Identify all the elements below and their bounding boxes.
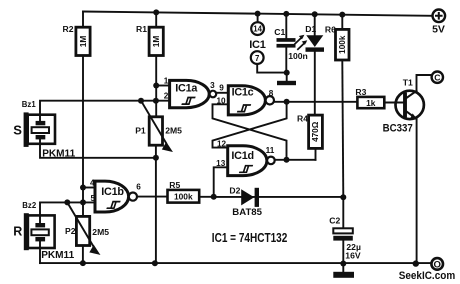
node top rail junction IC1 pin14: [255, 11, 261, 17]
wire R2 bottom to IC1b inputs: [82, 56, 84, 203]
svg-text:7: 7: [255, 54, 259, 63]
svg-text:8: 8: [269, 89, 274, 98]
wire latch cross pin12 to IC1c output: [213, 102, 287, 148]
resistor R6: [325, 24, 349, 60]
svg-text:R2: R2: [63, 24, 74, 34]
node junction R5 / pin13 / D2: [211, 194, 217, 200]
wire R6 top stub: [341, 15, 343, 30]
terminal C: [432, 72, 443, 83]
wire IC1d output line to R4 bottom: [275, 159, 316, 161]
svg-text:1M: 1M: [151, 36, 161, 48]
node top rail junction R6: [339, 12, 345, 18]
svg-text:IC1b: IC1b: [101, 186, 124, 198]
potentiometer P2: [65, 202, 109, 253]
svg-text:2M5: 2M5: [165, 125, 182, 135]
svg-text:1k: 1k: [366, 98, 376, 108]
svg-text:Bz2: Bz2: [22, 201, 37, 210]
svg-text:9: 9: [219, 84, 224, 93]
node bottom rail junction C2: [340, 261, 346, 267]
wire IC1c output to R3: [274, 101, 357, 103]
svg-text:5V: 5V: [432, 24, 445, 36]
svg-text:2: 2: [164, 92, 169, 101]
IC1 power pins: [249, 22, 265, 64]
wire top supply rail: [83, 12, 432, 16]
ground upper bar: [277, 81, 296, 85]
svg-text:4: 4: [90, 178, 95, 187]
wire pin13 riser: [214, 167, 228, 197]
capacitor C1: [274, 14, 307, 73]
svg-text:D2: D2: [229, 186, 240, 196]
svg-text:C1: C1: [274, 27, 285, 37]
node junction R2 / pin5: [80, 199, 86, 205]
svg-text:P2: P2: [65, 226, 76, 236]
wire R4 bottom stub: [315, 148, 317, 159]
svg-text:IC1a: IC1a: [175, 83, 198, 95]
svg-text:SeekIC.com: SeekIC.com: [399, 270, 456, 282]
node bottom rail junction P2: [80, 260, 86, 266]
terminal +5V: [432, 10, 445, 36]
svg-text:R: R: [13, 225, 22, 239]
wire R1 bottom to P1 top: [155, 56, 157, 117]
buzzer Bz2: [13, 201, 74, 261]
svg-text:13: 13: [216, 159, 226, 168]
resistor R5: [168, 180, 200, 203]
gate IC1b: [90, 178, 141, 212]
svg-text:6: 6: [136, 183, 141, 192]
node junction P1 wiper: [138, 98, 144, 104]
svg-text:470Ω: 470Ω: [311, 121, 320, 142]
svg-text:100n: 100n: [288, 51, 308, 61]
svg-text:BAT85: BAT85: [232, 207, 262, 218]
node junction pin1/R1: [153, 83, 159, 89]
svg-text:R5: R5: [169, 180, 180, 190]
svg-text:16V: 16V: [345, 251, 361, 261]
svg-text:P1: P1: [135, 125, 146, 135]
svg-text:IC1 = 74HCT132: IC1 = 74HCT132: [212, 230, 287, 245]
node junction P1 top / R1: [153, 98, 159, 104]
wire R3 right lead: [384, 102, 403, 104]
resistor R4: [297, 113, 322, 148]
wire R6 bottom to D2 node: [342, 60, 343, 197]
node junction C1 / pin7 ground: [284, 70, 290, 76]
wire R5 right lead: [199, 196, 214, 198]
gate IC1d: [216, 140, 275, 176]
svg-text:IC1c: IC1c: [232, 86, 254, 98]
svg-text:R4: R4: [297, 113, 308, 123]
gate IC1a: [164, 76, 216, 107]
node junction IC1d out: [284, 157, 290, 163]
svg-text:C2: C2: [329, 215, 340, 225]
svg-text:C: C: [434, 73, 440, 83]
resistor R3: [355, 87, 384, 108]
svg-text:PKM11: PKM11: [42, 148, 75, 159]
svg-text:R1: R1: [136, 24, 147, 34]
terminal O: [431, 258, 443, 270]
svg-text:11: 11: [266, 146, 275, 155]
node junction D2 / R6 / C2: [340, 194, 346, 200]
svg-text:3: 3: [210, 81, 215, 90]
buzzer Bz1: [13, 100, 75, 159]
svg-text:S: S: [13, 122, 22, 137]
wire T1 collector to C terminal: [417, 75, 433, 91]
svg-text:14: 14: [253, 25, 262, 34]
wire Bz1 top / IC1a pin2 line: [40, 101, 170, 115]
potentiometer P1: [135, 101, 182, 151]
wire T1 emitter down: [416, 119, 418, 264]
wire pin14 stub: [257, 14, 259, 23]
wire Bz2 top / IC1b pin5 line: [40, 202, 95, 215]
svg-text:R3: R3: [355, 87, 366, 97]
wire IC1b pin4 stub: [83, 187, 95, 189]
node junction pin4/R2: [80, 185, 86, 191]
svg-text:BC337: BC337: [383, 123, 413, 135]
wire P2 bottom stub: [82, 246, 84, 264]
gate IC1c: [216, 84, 274, 115]
node junction P1 bottom / Bz1 bottom: [153, 155, 159, 161]
wire bottom ground rail: [40, 262, 431, 264]
svg-text:100k: 100k: [338, 35, 347, 54]
svg-text:T1: T1: [403, 78, 413, 88]
ground lower bar: [333, 272, 354, 278]
node bottom rail junction T1 emitter: [413, 260, 419, 266]
transistor T1: [383, 78, 424, 135]
svg-text:2M5: 2M5: [92, 227, 109, 237]
resistor R2: [63, 24, 91, 56]
capacitor C2: [329, 197, 361, 263]
svg-text:PKM11: PKM11: [41, 250, 74, 261]
svg-text:D1: D1: [305, 24, 316, 34]
wire latch cross pin10 to IC1d output: [213, 104, 287, 160]
node top rail junction R1: [153, 9, 159, 15]
node top rail junction C1: [283, 11, 289, 17]
wire pin7 to ground node: [257, 64, 287, 73]
node junction IC1c out: [284, 99, 290, 105]
svg-text:R6: R6: [325, 24, 336, 34]
diode D1 LED: [295, 14, 324, 115]
svg-text:1: 1: [164, 76, 169, 85]
svg-text:1M: 1M: [78, 36, 88, 48]
wire Bz1 bottom line: [40, 144, 156, 158]
svg-text:100k: 100k: [174, 192, 193, 202]
wire Bz2 bottom lead: [39, 248, 41, 263]
node top rail junction D1: [312, 11, 318, 17]
node junction P2 wiper: [64, 199, 70, 205]
svg-text:Bz1: Bz1: [22, 100, 37, 109]
wire IC1a out to IC1c pin9: [216, 92, 228, 94]
diode D2 BAT85: [214, 186, 344, 219]
wire ground stub lower: [342, 264, 344, 272]
resistor R1: [136, 24, 163, 56]
wire P1 bottom stub: [155, 145, 157, 158]
node bottom rail junction Bz1 column: [152, 260, 158, 266]
wire ground stub upper: [286, 73, 288, 81]
wire P2 top stub: [82, 202, 84, 216]
wire IC1b out to R5: [137, 196, 168, 198]
wire R1 top stub: [155, 12, 157, 27]
svg-text:IC1: IC1: [249, 39, 265, 51]
wire R2 top stub: [82, 12, 84, 28]
wire Bz1 column down to ground rail: [155, 158, 157, 263]
wire IC1a pin1 stub: [156, 85, 169, 87]
svg-text:IC1d: IC1d: [231, 150, 253, 162]
svg-text:O: O: [433, 259, 441, 270]
